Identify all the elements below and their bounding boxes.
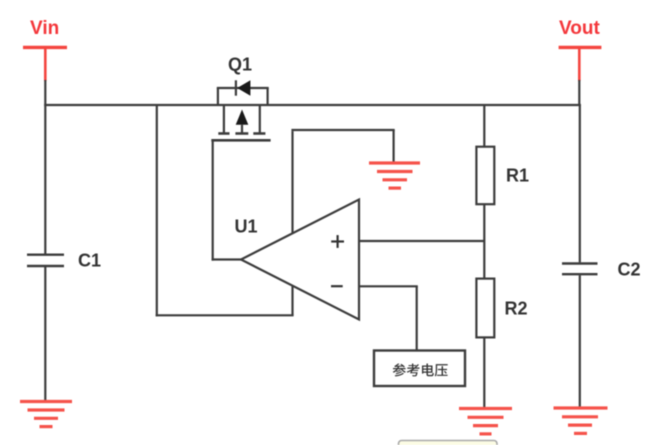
svg-text:R2: R2 xyxy=(505,299,528,319)
wire U1 top pin to ground xyxy=(291,130,394,234)
reference voltage box xyxy=(374,351,465,387)
wire R1 bottom to R2 top xyxy=(483,204,485,278)
wire C2 top lead xyxy=(579,105,581,262)
wire R1 top lead xyxy=(483,105,485,147)
wire noninverting input to divider node xyxy=(359,240,484,242)
wire C2 bottom lead xyxy=(579,275,581,407)
power flag Vout xyxy=(559,47,602,81)
resistor R2 xyxy=(476,279,494,338)
wire inverting input to reference xyxy=(359,286,418,350)
ground C2 xyxy=(554,408,608,433)
wire main input rail xyxy=(44,104,581,106)
power flag Vin xyxy=(23,47,67,81)
ground R2 xyxy=(459,409,512,434)
text reference voltage (CJK paths) xyxy=(393,363,448,376)
svg-text:Q1: Q1 xyxy=(228,55,252,75)
ground C1 xyxy=(20,402,72,427)
svg-text:R1: R1 xyxy=(506,166,529,186)
wire R2 bottom lead xyxy=(483,337,485,407)
wire rail to U1 bottom pin xyxy=(156,105,294,316)
resistor R1 xyxy=(476,147,494,205)
wire C1 bottom lead xyxy=(44,267,46,401)
wire Vout stub to rail xyxy=(578,80,580,105)
svg-text:Vin: Vin xyxy=(30,18,59,39)
op-amp U1 xyxy=(241,200,359,320)
capacitor C2 xyxy=(562,264,598,275)
svg-text:C1: C1 xyxy=(78,251,101,271)
caption box cropped at bottom xyxy=(399,441,498,445)
svg-text:Vout: Vout xyxy=(559,18,600,39)
ground U1 xyxy=(369,163,420,188)
wire Vin stub to rail xyxy=(44,80,46,105)
wire C1 top lead xyxy=(44,105,46,254)
wire Q1 gate to U1 output xyxy=(212,140,242,260)
transistor Q1 xyxy=(211,80,270,140)
svg-text:C2: C2 xyxy=(618,260,641,280)
capacitor C1 xyxy=(27,255,64,266)
svg-text:U1: U1 xyxy=(235,217,258,237)
